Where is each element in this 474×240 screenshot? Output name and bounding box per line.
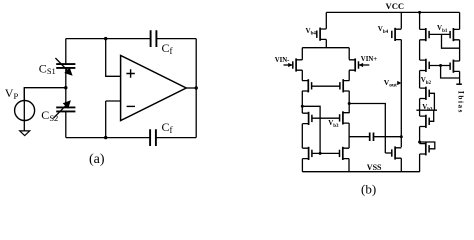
wire B4 gate lead over and up to Vb3 bus: [429, 110, 434, 121]
node output junction dot on right rail: [195, 86, 198, 89]
wire gate bus tying B2 pair gates: [429, 65, 450, 67]
node B junction dot (right cascode drain, first stage output): [348, 102, 351, 105]
svg-text:Vb4: Vb4: [378, 25, 389, 35]
svg-text:Vout: Vout: [384, 78, 397, 89]
svg-text:Vb3: Vb3: [422, 103, 433, 113]
svg-text:(a): (a): [89, 152, 105, 167]
svg-text:(b): (b): [361, 182, 376, 197]
wire diff pair tail bus y=47.7: [302, 47, 349, 49]
wire bottom rail left segment from Cs2 to bottom Cf: [66, 137, 150, 139]
node junction dot on VCC rail feeding bias chain left branch: [418, 11, 421, 14]
node junction dot mirror gates to node A column: [319, 152, 322, 155]
wire M4 source down to node B and M6 drain: [348, 91, 350, 113]
wire B5 diode loop gate to drain: [420, 142, 435, 149]
wire output NMOS gate lead up to node B feed: [385, 152, 391, 154]
wire B3 drain down through Vb3 bus to B4 source: [419, 99, 421, 117]
transistor second stage PMOS M10 (Vb4 right): [392, 28, 402, 41]
wire tail PMOS drain down to diff pair tail node: [325, 39, 327, 47]
svg-text:Vb3: Vb3: [328, 119, 339, 129]
svg-text:Vb1: Vb1: [437, 24, 448, 34]
wire VCC rail down to Vb4 right PMOS source: [400, 12, 402, 28]
transistor bias B5 diode: [420, 142, 430, 155]
transistor input NMOS M1 (VIN-): [284, 58, 303, 71]
capacitor CS2 variable sensor cap plates: [56, 107, 75, 111]
transistor input NMOS M2 (VIN+): [349, 58, 369, 71]
capacitor Cf (top feedback): [151, 30, 157, 47]
wire M2 drain down to cross pair M4 drain: [348, 70, 350, 80]
capacitor Cf (bottom feedback): [150, 129, 156, 146]
wire top rail right segment from top Cf to output rail corner: [156, 38, 196, 40]
transistor bias B2 left (Vb2): [420, 59, 430, 72]
transistor output NMOS M11: [392, 146, 402, 159]
wire non-inverting input branch from top rail down and into op-amp +: [106, 39, 121, 77]
wire op-amp output to right rail: [186, 87, 196, 89]
wire M5 source down to M7 drain: [301, 124, 303, 149]
wire from Vp source top to sensor midpoint: [24, 88, 66, 101]
wire M3 source down to node A and M5 drain: [301, 91, 303, 113]
transistor cascode left NMOS M5 (Vb3): [302, 112, 312, 125]
wire B1 right drain down joining diode tie to B2 right source: [459, 40, 461, 61]
wire B2 left drain down to B3 source: [419, 71, 421, 89]
wire B5 source down to VSS rail corner: [419, 154, 421, 172]
node junction dot inverting branch on bottom rail: [104, 136, 107, 139]
arrow of variable capacitor CS1 pointing lower-right: [55, 58, 69, 72]
wire sensor column top from top rail down to Cs1: [65, 39, 67, 65]
wire gate bus tying B1 pair gates: [429, 33, 450, 35]
svg-text:VCC: VCC: [386, 1, 405, 11]
transistor bias B3: [420, 87, 430, 100]
capacitor CS1 variable sensor cap plates: [56, 64, 75, 68]
svg-text:Ibias: Ibias: [457, 91, 466, 114]
wire tail bus left end down to M1 source: [301, 48, 303, 60]
arrow of variable capacitor CS2 pointing upper-right: [53, 104, 67, 118]
capacitor Cc compensation plates: [370, 133, 374, 142]
transistor bias B2 right diode (Ibias): [450, 60, 460, 73]
transistor bias B4: [420, 115, 430, 128]
terminal bar Ibias: [456, 83, 462, 85]
wire B4 drain down to B5 diode node: [419, 127, 421, 144]
transistor cascode right NMOS M6 (Vb3): [340, 111, 350, 124]
node junction dot B5 diode tie: [418, 141, 421, 144]
wire Vb3 bus: [416, 109, 437, 111]
wire comp cap right plate to output rail: [374, 136, 402, 138]
wire B2 diode tie from gate bus dot to Ibias branch: [441, 66, 460, 79]
node junction dot on B2 gate bus: [439, 64, 442, 67]
transistor mirror right NMOS M8: [340, 147, 350, 160]
arrowhead of Vout pointing at output rail: [397, 81, 401, 85]
wire bottom rail right segment from bottom Cf to right rail: [156, 137, 196, 139]
wire inverting input branch from op-amp - down to bottom rail: [106, 101, 121, 138]
wire B2 right drain down to Ibias terminal: [459, 71, 461, 84]
svg-text:CS1: CS1: [39, 61, 56, 76]
transistor tail PMOS M9 (Vb4 left): [317, 28, 327, 41]
wire M1 drain down to cross pair M3 drain: [301, 70, 303, 80]
svg-text:VP: VP: [5, 86, 19, 101]
svg-text:VIN+: VIN+: [361, 56, 377, 63]
wire M6 source down through comp cap tap to M8 drain: [348, 123, 350, 148]
wire gate bus tying M7 and M8 gates y=153.4: [312, 152, 340, 154]
wire right rail connecting both Cf returns and output: [195, 39, 197, 138]
wire VCC top rail y=12.4: [326, 11, 459, 13]
node junction dot Vp feed into sensor midpoint: [64, 86, 67, 89]
wire B3 gate lead over and down to Vb3 bus: [429, 93, 434, 110]
transistor bias B1 left (Vb1): [420, 28, 430, 41]
op-amp + input sign: [126, 69, 134, 77]
wire between CS1 and CS2: [65, 68, 67, 108]
wire comp cap tap from M6 source column: [349, 136, 370, 138]
arrowhead on VIN- gate lead: [288, 63, 292, 67]
wire VCC rail right corner down to B1 right source: [459, 12, 461, 29]
transistor cross pair left NMOS M3: [302, 79, 312, 92]
wire gate bus tying M5 and M6 gates y=118.2: [312, 117, 340, 119]
svg-text:VIN-: VIN-: [275, 57, 290, 64]
wire tail bus right end down to M2 source: [348, 48, 350, 60]
wire output rail from M10 drain down to output NMOS drain: [400, 40, 402, 148]
wire node B to second stage gate feed: [349, 104, 385, 154]
transistor cross pair right NMOS M4: [340, 79, 350, 92]
transistor mirror left NMOS M7: [302, 147, 312, 160]
wire VCC dot down to B1 left source: [419, 12, 421, 29]
svg-text:Cf: Cf: [162, 120, 173, 135]
wire sensor column bottom from CS2 to bottom rail: [65, 111, 67, 137]
wire M7 source down to VSS rail: [301, 159, 303, 172]
wire B1 left drain down to B2 left source: [419, 40, 421, 60]
svg-text:VSS: VSS: [367, 163, 382, 172]
ground symbol below Vp: [20, 131, 30, 136]
transistor bias B1 right (Vb1): [450, 28, 460, 41]
wire M8 source down to VSS rail: [348, 159, 350, 172]
arrowhead on VIN+ gate lead: [359, 63, 363, 67]
wire VCC rail corner down to tail PMOS Vb4 left: [325, 12, 327, 28]
wire B1 diode tie from gate bus down to right branch: [442, 34, 460, 48]
node junction dot comp cap on output rail: [400, 135, 403, 138]
node junction dot top rail to non-inverting input branch: [104, 37, 107, 40]
svg-text:Cf: Cf: [162, 41, 173, 56]
svg-text:CS2: CS2: [41, 108, 58, 123]
wire output NMOS source down to VSS rail: [400, 158, 402, 172]
op-amp U1 triangle: [121, 55, 187, 120]
op-amp - input sign: [127, 105, 135, 107]
wire node A to mirror gate column: [302, 106, 320, 153]
voltage source Vp circle: [15, 101, 35, 121]
wire VSS rail y=171.7: [302, 171, 420, 173]
svg-text:Vb2: Vb2: [421, 76, 432, 86]
node A junction dot (left cascode drain): [301, 105, 304, 108]
wire top rail of charge amp, y=38.6 (left segment to top Cf): [66, 38, 151, 40]
wire through and below Vp source to ground: [23, 88, 25, 131]
svg-text:Vb4: Vb4: [306, 27, 317, 37]
wire gate bus tying M3 and M4 gates y=86.2: [312, 85, 340, 87]
